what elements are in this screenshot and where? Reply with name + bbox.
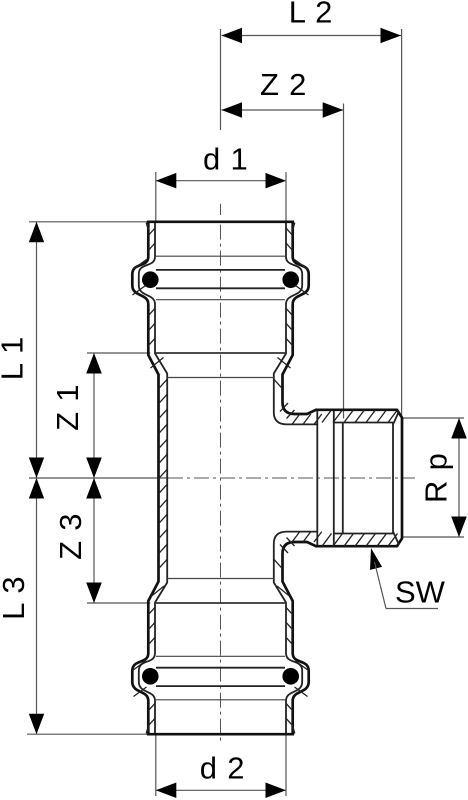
- o-ring top right: [282, 271, 299, 288]
- hatching branch top fillet: [280, 403, 288, 412]
- extension line d2 right: [285, 734, 287, 796]
- bottom socket o-ring upper line: [156, 667, 285, 669]
- extension line top edge: [29, 221, 148, 223]
- hatching right bead top slopes: [295, 260, 308, 270]
- dimension d2 line: [156, 789, 286, 791]
- extension line Z2 right: [343, 104, 345, 419]
- branch socket mouth chamfer top: [393, 411, 399, 424]
- branch socket outer face: [316, 410, 402, 546]
- svg-text:d 2: d 2: [200, 751, 246, 786]
- hatching right wall below top bead: [286, 308, 293, 315]
- extension line d1 right: [285, 172, 287, 222]
- hatching left wall bottom socket upper: [148, 607, 155, 614]
- hatching left wall bottom socket lower: [148, 703, 155, 710]
- extension line Rp bottom: [403, 536, 464, 538]
- tee body right inner wall lower and stub bottom inner: [274, 532, 318, 735]
- dimension L2 line: [222, 35, 402, 37]
- hatching right taper bottom: [277, 586, 290, 597]
- hatching branch stub bottom wall: [292, 532, 300, 542]
- dimension Z1 line: [93, 353, 95, 478]
- bottom socket groove upper thin line: [156, 655, 285, 657]
- branch socket mouth chamfer bottom: [393, 532, 399, 545]
- hatching left bead bottom slopes: [133, 661, 146, 671]
- mouth flare bottom right: [293, 727, 295, 733]
- hatching branch stub top wall: [292, 414, 300, 424]
- bottom socket o-ring lower line: [156, 685, 285, 687]
- svg-text:Z 2: Z 2: [260, 67, 307, 102]
- vertical centerline dash above fitting: [220, 204, 222, 215]
- branch socket bore bottom line: [334, 533, 393, 535]
- tee body right outer wall lower and branch bottom: [283, 542, 317, 734]
- dimension L1 line: [36, 222, 38, 478]
- svg-text:d 1: d 1: [203, 141, 249, 176]
- horizontal branch centerline: [168, 477, 415, 479]
- hatching left bead top slopes: [134, 260, 147, 270]
- svg-text:L 2: L 2: [289, 0, 333, 30]
- hatching left wall below top bead: [148, 308, 155, 315]
- top socket end line: [156, 352, 285, 354]
- tee body bottom edge: [147, 733, 294, 736]
- extension line d1 left: [155, 172, 157, 222]
- tee body left outer wall: [132, 222, 158, 734]
- extension line Z3 bottom: [87, 602, 150, 604]
- hatching branch bottom fillet: [280, 545, 288, 554]
- bottom tube shoulder line: [167, 578, 274, 580]
- svg-text:Z 3: Z 3: [53, 513, 88, 560]
- tee body left inner wall: [139, 222, 167, 734]
- branch socket thread start vertical: [342, 423, 344, 534]
- dimension Z2 line: [222, 109, 344, 111]
- branch socket collar right vertical: [333, 411, 335, 545]
- top socket o-ring upper line: [156, 269, 285, 271]
- svg-text:R p: R p: [419, 452, 454, 503]
- svg-text:L 1: L 1: [0, 336, 30, 380]
- hatching right wall tube below branch: [274, 559, 283, 569]
- svg-text:Z 1: Z 1: [50, 384, 85, 431]
- extension line L3 bottom: [27, 733, 156, 735]
- top tube shoulder line: [167, 377, 274, 379]
- extension line Rp top: [403, 417, 464, 419]
- extension line L2 right: [401, 29, 403, 418]
- top socket groove upper thin line: [156, 255, 285, 257]
- mouth flare top left: [147, 223, 149, 229]
- o-ring bottom right: [282, 668, 299, 685]
- hatching right wall bottom socket lower: [286, 703, 293, 710]
- o-ring bottom left: [142, 668, 159, 685]
- dimension L3 line: [36, 478, 38, 734]
- dimension Z3 line: [93, 478, 95, 603]
- hatching right taper top: [278, 358, 291, 369]
- svg-text:SW: SW: [395, 575, 446, 610]
- bottom socket end line: [156, 602, 285, 604]
- tee body right outer wall upper and branch top: [283, 222, 317, 414]
- tee body right inner wall upper and stub top inner: [274, 222, 318, 425]
- hatching branch socket top wall: [322, 410, 332, 423]
- hatching right bead bottom slopes: [296, 661, 309, 671]
- hatching branch socket bottom wall: [322, 534, 332, 547]
- hatching left taper bottom: [151, 586, 164, 597]
- hatching left taper top: [151, 358, 164, 369]
- o-ring top left: [142, 271, 159, 288]
- top socket o-ring lower line: [156, 287, 285, 289]
- branch socket bore end vertical: [392, 423, 394, 534]
- vertical centerline: [220, 225, 222, 742]
- extension line Z1 top: [87, 352, 150, 354]
- svg-text:L 3: L 3: [0, 576, 31, 620]
- mouth flare top right: [293, 223, 295, 229]
- extension line d2 left: [155, 734, 157, 796]
- hatching right wall bottom socket upper: [286, 607, 293, 614]
- leader SW: [370, 548, 382, 570]
- extension line main centerline above: [220, 29, 222, 130]
- mouth flare bottom left: [147, 727, 149, 733]
- branch socket bore top line: [334, 422, 393, 424]
- hatching left wall tube: [159, 379, 168, 389]
- tee body top edge: [147, 220, 294, 223]
- top socket groove lower thin line: [156, 299, 285, 301]
- dimension d1 line: [156, 180, 286, 182]
- bottom socket groove lower thin line: [156, 699, 285, 701]
- hatching right wall tube above branch: [274, 379, 283, 389]
- dimension Rp line: [458, 418, 460, 537]
- hatching right wall top socket: [286, 228, 293, 235]
- hatching left wall top socket: [148, 228, 155, 235]
- extension line branch centerline left: [29, 477, 169, 479]
- branch socket collar left vertical: [316, 411, 318, 545]
